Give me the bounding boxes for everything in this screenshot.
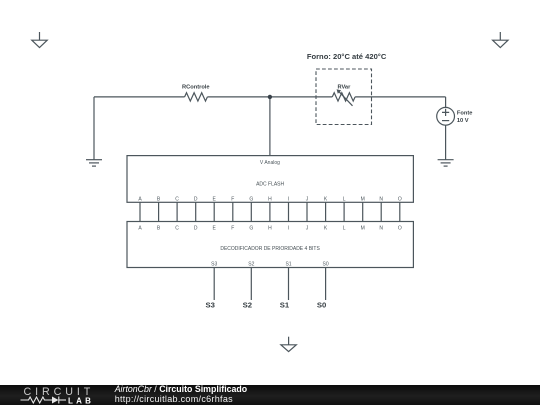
svg-text:S2: S2 [243, 300, 252, 309]
svg-text:M: M [361, 226, 365, 232]
svg-text:S2: S2 [248, 261, 254, 267]
svg-text:S1: S1 [285, 261, 291, 267]
svg-text:RControle: RControle [182, 85, 210, 91]
svg-text:M: M [361, 196, 365, 202]
svg-text:F: F [231, 196, 234, 202]
svg-text:O: O [398, 226, 402, 232]
wires ADC pins to decoder pins [140, 202, 400, 221]
wire down to source [445, 97, 447, 108]
svg-text:L: L [343, 226, 346, 232]
ground (earth) symbol top-left [32, 32, 47, 48]
ground right (below source) [438, 160, 454, 166]
wire right horizontal [355, 96, 446, 98]
svg-text:C: C [175, 196, 179, 202]
svg-text:S3: S3 [205, 300, 214, 309]
wires decoder outputs S3 S2 S1 S0 [214, 268, 325, 301]
wire left vertical to ground [93, 97, 95, 160]
pin labels decoder S3 S2 S1 S0 [211, 261, 329, 267]
svg-text:10 V: 10 V [457, 118, 469, 124]
pin labels decoder A-O [138, 226, 402, 232]
svg-text:DECODIFICADOR DE PRIORIDADE 4: DECODIFICADOR DE PRIORIDADE 4 BITS [220, 246, 320, 252]
svg-text:G: G [249, 196, 253, 202]
node junction dot [268, 95, 272, 99]
svg-text:N: N [379, 196, 383, 202]
svg-text:AirtonCbr / Circuito Simplific: AirtonCbr / Circuito Simplificado [114, 384, 248, 394]
svg-text:F: F [231, 226, 234, 232]
svg-text:H: H [268, 226, 272, 232]
wire left horizontal [94, 96, 185, 98]
svg-text:S1: S1 [280, 300, 290, 309]
svg-text:N: N [379, 226, 383, 232]
wire source to ground [445, 125, 447, 160]
svg-text:Fonte: Fonte [457, 111, 472, 117]
svg-text:S0: S0 [323, 261, 329, 267]
dashed box Forno [316, 69, 372, 125]
voltage source Fonte 10 V [437, 107, 455, 125]
svg-text:http://circuitlab.com/c6rhfas: http://circuitlab.com/c6rhfas [115, 394, 233, 404]
svg-text:S0: S0 [317, 300, 326, 309]
svg-text:G: G [249, 226, 253, 232]
svg-text:L: L [343, 196, 346, 202]
net labels S3 S2 S1 S0 [205, 300, 326, 309]
ground (earth) symbol bottom-center [281, 337, 296, 352]
resistor RControle [185, 93, 208, 101]
resistor RVar (rheostat) [332, 89, 355, 106]
svg-text:I: I [288, 226, 289, 232]
ground (earth) symbol top-right [493, 32, 508, 48]
svg-text:V Analog: V Analog [260, 160, 280, 166]
svg-text:D: D [194, 226, 198, 232]
svg-text:C: C [175, 226, 179, 232]
svg-text:I: I [288, 196, 289, 202]
svg-text:D: D [194, 196, 198, 202]
wire middle horizontal [207, 96, 332, 98]
svg-text:S3: S3 [211, 261, 217, 267]
svg-text:LAB: LAB [68, 396, 94, 405]
svg-text:H: H [268, 196, 272, 202]
box ADC FLASH U1 [127, 156, 413, 203]
svg-text:O: O [398, 196, 402, 202]
logo wire-resistor-diode glyph [21, 397, 67, 404]
svg-text:ADC FLASH: ADC FLASH [256, 182, 284, 188]
svg-text:Forno: 20°C até 420°C: Forno: 20°C até 420°C [307, 52, 387, 61]
wire node to ADC [269, 97, 271, 156]
svg-text:RVar: RVar [337, 84, 351, 90]
ground left [86, 160, 102, 166]
pin labels ADC A-O [138, 196, 402, 202]
box DECODIFICADOR U2 [127, 222, 413, 268]
